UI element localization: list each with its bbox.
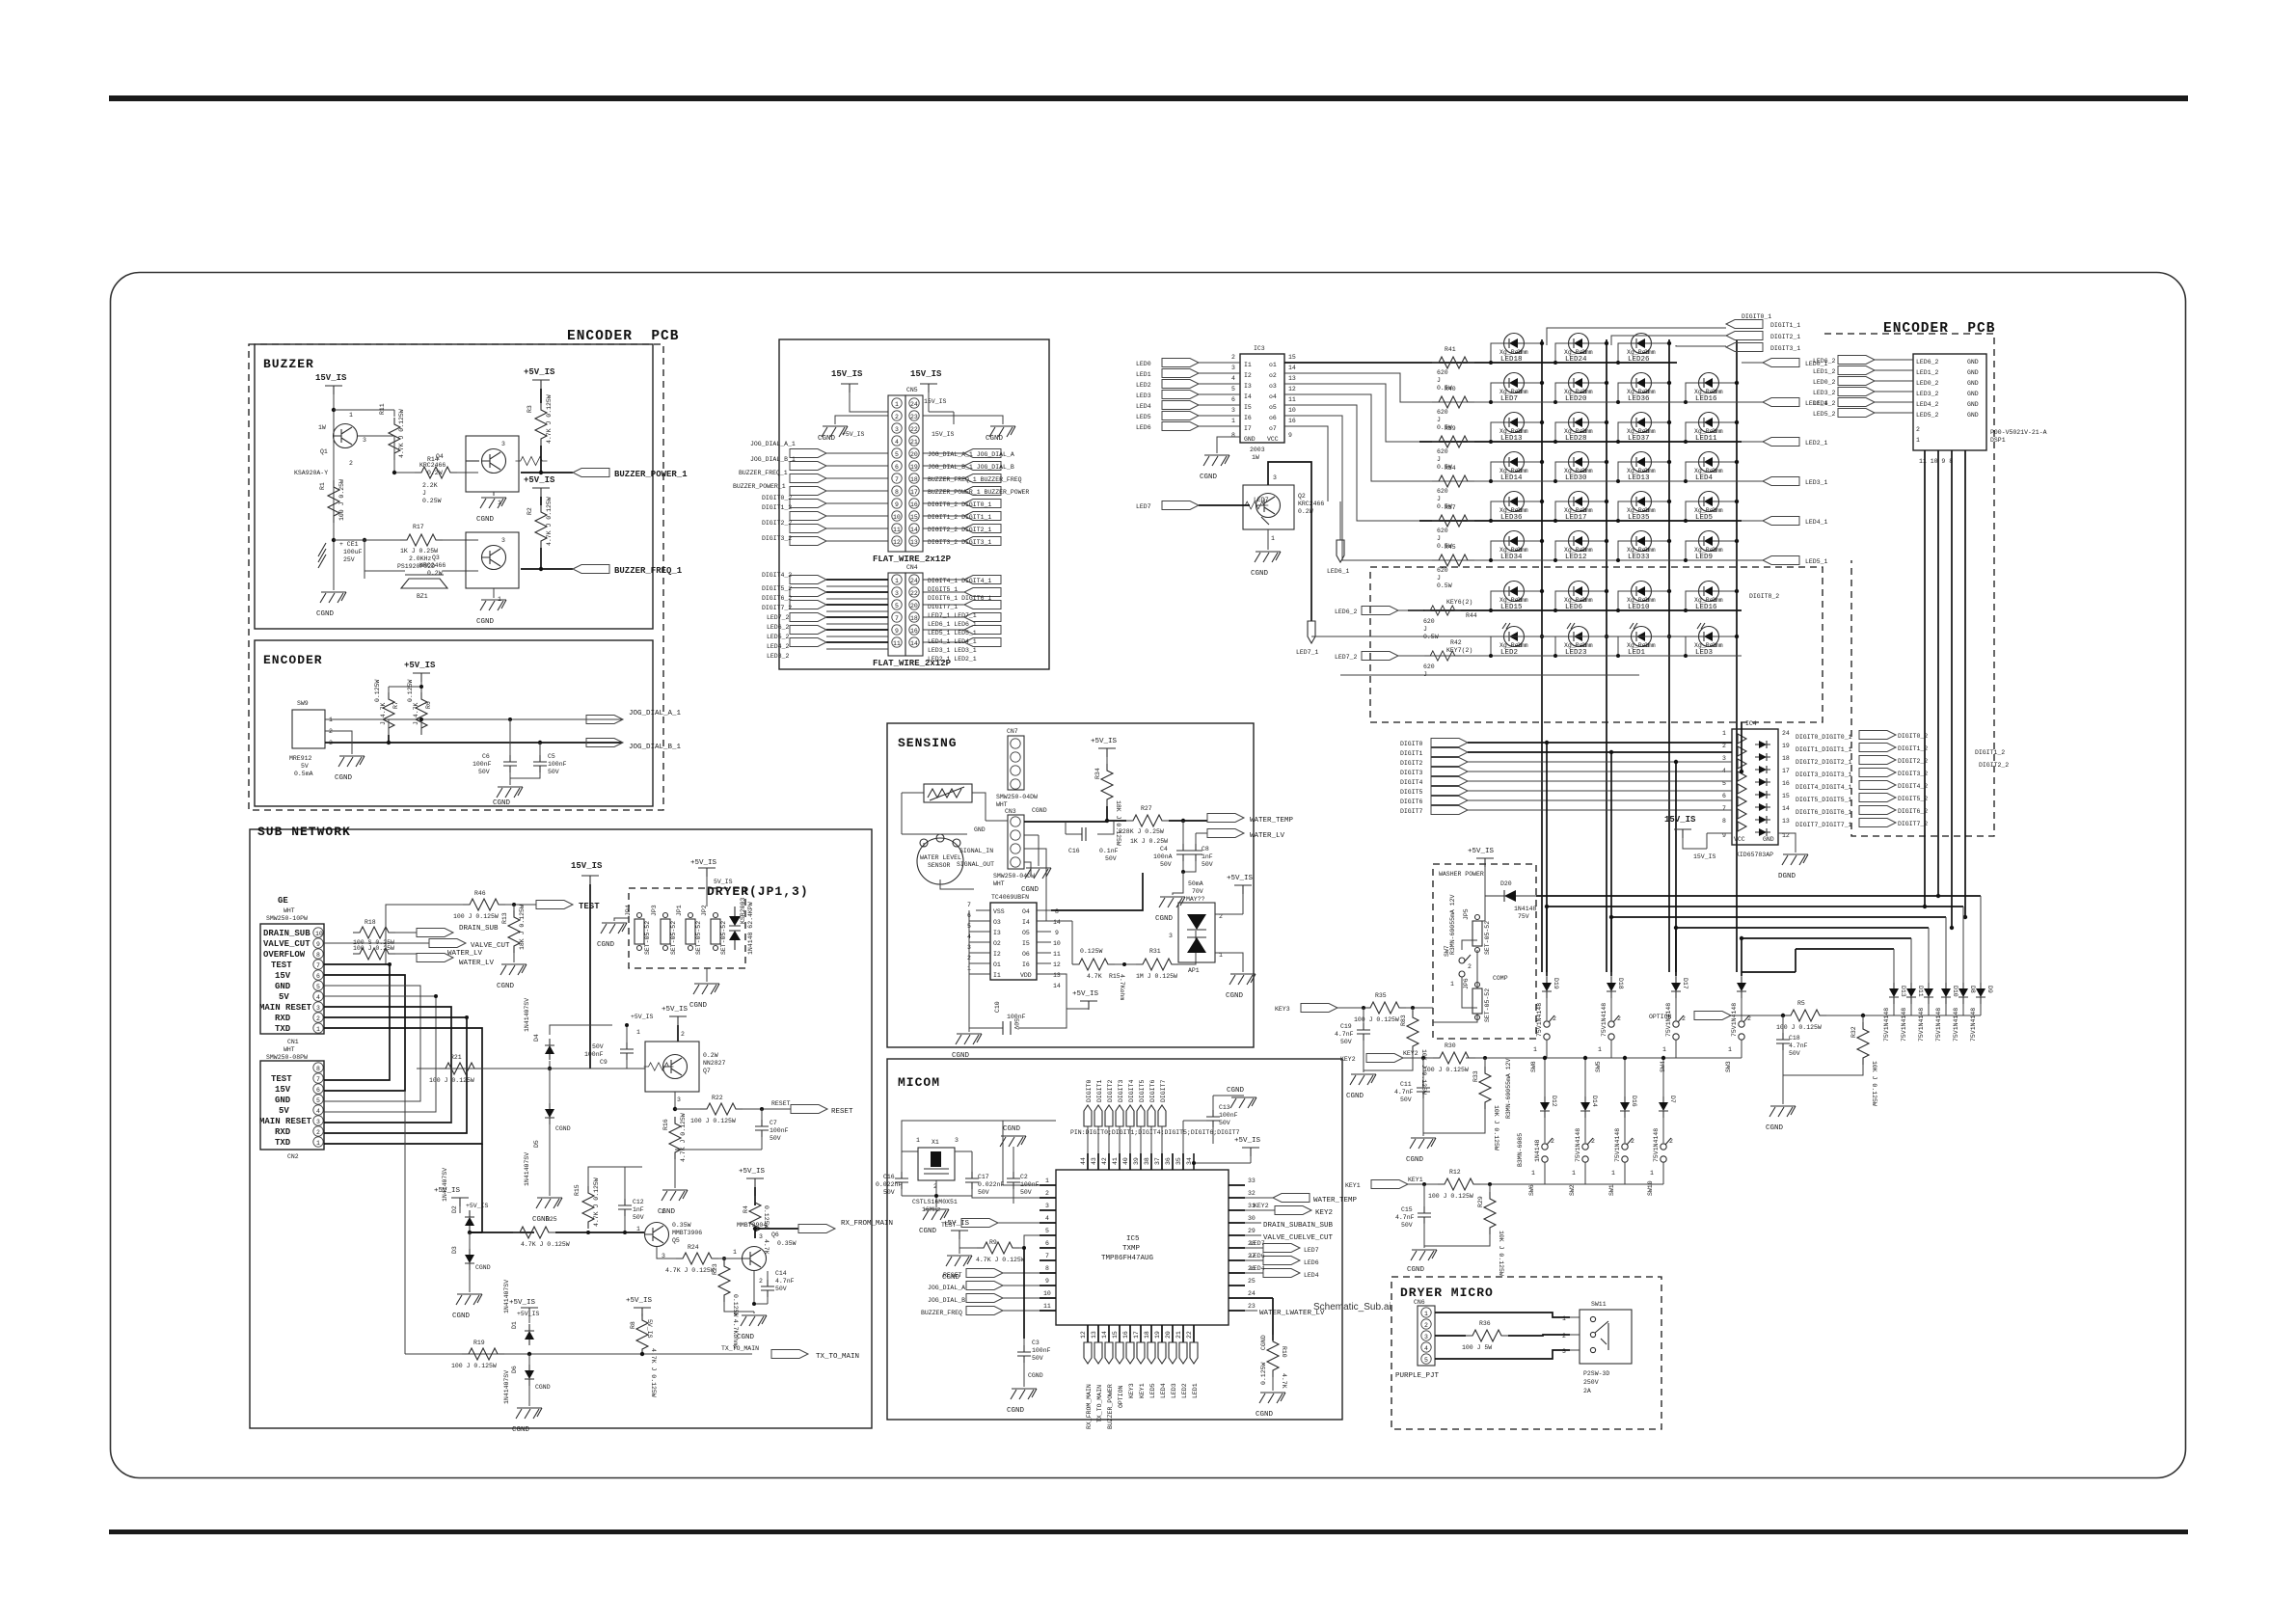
svg-text:PURPLE_PJT: PURPLE_PJT [1395,1372,1440,1380]
svg-text:R45: R45 [1445,544,1456,551]
svg-text:0.2W: 0.2W [427,470,443,476]
svg-text:CGND: CGND [1260,1335,1267,1350]
svg-text:JOG_DIAL_A_1 JOG_DIAL_A: JOG_DIAL_A_1 JOG_DIAL_A [928,451,1014,458]
svg-text:DIGIT0_DIGIT0_1: DIGIT0_DIGIT0_1 [1796,734,1852,741]
svg-text:D4: D4 [533,1034,540,1042]
svg-text:DIGIT1_2: DIGIT1_2 [762,504,792,511]
svg-text:2: 2 [1916,426,1920,433]
svg-text:1N41407SV: 1N41407SV [503,1280,510,1313]
svg-text:MMBT3904: MMBT3904 [737,1222,767,1229]
net flag TX_TO_MAIN [721,1345,859,1361]
svg-text:6: 6 [316,1087,320,1094]
svg-text:1: 1 [733,1249,737,1256]
svg-text:18: 18 [1782,755,1790,762]
ground CGND under R13 [497,953,527,990]
ground DGND (IC4) [1778,833,1808,880]
svg-text:11: 11 [1288,396,1296,403]
svg-text:5V: 5V [301,763,309,770]
jumper JP4 [625,905,651,955]
svg-text:VALVE_CUT: VALVE_CUT [471,942,510,950]
power +5V_IS (IC5) [1192,1137,1261,1170]
svg-text:1: 1 [316,1140,320,1147]
svg-text:LED1: LED1 [1628,649,1646,657]
svg-text:CGND: CGND [597,941,615,949]
svg-text:DIGIT3_2: DIGIT3_2 [762,535,792,542]
svg-text:SW3: SW3 [1725,1061,1732,1072]
svg-text:15V_IS: 15V_IS [831,369,863,379]
svg-text:R16: R16 [662,1119,669,1130]
svg-text:3mm: 3mm [1712,389,1723,395]
svg-text:GND: GND [1763,836,1774,843]
svg-text:3mm: 3mm [1581,507,1593,514]
svg-text:Q5: Q5 [672,1237,680,1244]
svg-text:LED5_2: LED5_2 [767,634,790,640]
svg-text:4.7K J 0.125W: 4.7K J 0.125W [976,1257,1025,1263]
svg-text:1K J 0.25W: 1K J 0.25W [1130,838,1168,845]
svg-text:R18: R18 [365,919,376,926]
svg-text:R3: R3 [527,405,533,413]
svg-text:C2: C2 [1020,1174,1028,1180]
svg-text:I4: I4 [1022,919,1030,926]
resistor R17 [397,524,443,570]
svg-text:21: 21 [1175,1331,1182,1339]
svg-text:Q3: Q3 [432,555,440,561]
jumper JP3 [651,905,677,955]
svg-text:C5: C5 [548,753,555,760]
svg-text:8: 8 [316,952,320,959]
power +5V_IS (IC1) [1051,974,1099,1010]
svg-text:4.7K: 4.7K [763,1239,770,1255]
wire pin8 vertical [1023,1248,1025,1339]
svg-text:JP6: JP6 [1463,978,1470,989]
svg-text:R36: R36 [1479,1320,1491,1327]
svg-text:3mm: 3mm [1517,642,1528,649]
washer power dashed box [1433,864,1536,1039]
svg-text:7: 7 [895,615,899,622]
net flag LED6_2 / resistor R44 [1335,599,1477,640]
svg-text:LED16: LED16 [1695,604,1717,611]
svg-text:CGND: CGND [535,1384,551,1391]
svg-text:+5V_IS: +5V_IS [1091,738,1118,745]
svg-text:1: 1 [1728,1046,1732,1053]
svg-text:o4: o4 [1269,393,1277,400]
svg-text:P00-V5021V-21-A: P00-V5021V-21-A [1990,429,2047,436]
svg-text:D2: D2 [451,1205,458,1213]
svg-text:CGND: CGND [475,1264,491,1271]
power +5V_IS (dryer) [690,859,733,907]
svg-text:LED5_1 LED5_1: LED5_1 LED5_1 [928,630,977,636]
svg-text:18K J 0.125W: 18K J 0.125W [519,905,526,950]
net flag LED3_1 [1742,477,1828,487]
svg-text:JOG_DIAL_B_1 JOG_DIAL_B: JOG_DIAL_B_1 JOG_DIAL_B [928,464,1014,471]
svg-text:1: 1 [1572,1170,1576,1177]
LED LED12 [1555,531,1607,562]
svg-text:R44: R44 [1466,612,1477,619]
svg-text:R34: R34 [1445,465,1456,472]
svg-text:+5V_IS: +5V_IS [1227,875,1254,882]
resistor R18 [353,919,395,946]
ground CGND (D6) [512,1386,542,1434]
svg-text:C19: C19 [1340,1023,1352,1030]
svg-text:0.125W: 0.125W [763,1205,770,1229]
svg-text:5: 5 [895,603,899,609]
capacitor C12 [618,1167,644,1234]
svg-text:0.5mA: 0.5mA [294,771,313,777]
capacitor C19 [1335,1006,1370,1070]
svg-text:6: 6 [895,464,899,471]
svg-text:DIGIT5: DIGIT5 [1139,1079,1146,1102]
svg-text:LED6_2: LED6_2 [1813,358,1836,365]
svg-text:4.7K J 0.125W: 4.7K J 0.125W [593,1177,600,1227]
svg-text:SW1: SW1 [1608,1184,1615,1196]
svg-text:100 J 0.125W: 100 J 0.125W [1423,1067,1469,1073]
svg-text:3: 3 [1231,365,1235,371]
ground CGND under Q4 [476,492,506,524]
svg-text:9: 9 [316,941,320,948]
svg-text:2: 2 [1682,1015,1686,1022]
resistor R39 [1432,425,1474,471]
svg-text:IC5: IC5 [1126,1235,1140,1243]
capacitor C2 [1007,1147,1040,1204]
KEY1 row [1345,1177,1663,1189]
svg-text:RESET: RESET [771,1100,791,1107]
svg-text:TXD: TXD [275,1024,291,1034]
svg-text:50V: 50V [548,769,559,775]
svg-text:C12: C12 [633,1199,644,1205]
svg-text:2: 2 [316,1129,320,1136]
svg-text:5: 5 [1231,386,1235,392]
svg-text:I3: I3 [1244,383,1252,390]
svg-text:J: J [422,490,426,497]
net flag LED5_1 [1742,556,1828,566]
svg-text:D17: D17 [1682,978,1688,989]
svg-text:LED18: LED18 [1500,356,1523,364]
long wires matrix to right [1311,636,1697,675]
svg-text:3: 3 [1231,407,1235,414]
svg-text:VSS: VSS [993,908,1005,915]
net flag VALVE_CUT [324,939,510,955]
svg-text:CGND: CGND [1251,570,1269,578]
svg-text:5: 5 [316,1097,320,1104]
svg-text:+ CE1: + CE1 [339,541,359,548]
ground CGND (AP1) [1215,953,1256,1000]
svg-text:D20: D20 [1500,880,1512,887]
net flag JOG_DIAL_B (micom) [928,1294,1040,1305]
svg-text:KEY2: KEY2 [1254,1203,1269,1209]
resistor R37 [1432,504,1474,550]
connector CN7 [996,728,1038,808]
micom IC5 [1056,1170,1229,1325]
svg-text:100 J 0.125W: 100 J 0.125W [1428,1193,1473,1200]
svg-text:JOG_DIAL_B: JOG_DIAL_B [928,1297,965,1304]
svg-text:4.7K J 0.125W: 4.7K J 0.125W [546,394,553,444]
svg-text:I2: I2 [993,951,1001,958]
resistor R23 [712,1259,739,1349]
ground CGND (SW9) [335,756,365,782]
jumper JP1 [676,905,702,955]
CN5 right net labels [928,449,1029,547]
svg-text:3: 3 [1273,474,1277,481]
svg-text:2A: 2A [1583,1388,1591,1394]
CN5 pins [873,398,952,564]
svg-text:18: 18 [910,615,918,622]
svg-text:50V: 50V [478,769,490,775]
svg-text:LED4: LED4 [1304,1272,1319,1279]
svg-text:DIGIT1_2: DIGIT1_2 [1975,749,2005,756]
svg-text:3mm: 3mm [1644,597,1656,604]
svg-text:R27: R27 [1141,805,1152,812]
svg-text:C16: C16 [883,1174,895,1180]
svg-text:4.7Kohm: 4.7Kohm [1119,974,1125,1000]
power +5V_IS (AP1) [1215,875,1254,914]
svg-text:I1: I1 [993,972,1001,979]
svg-text:75V: 75V [1518,913,1529,920]
capacitor C7 [675,1109,789,1150]
svg-text:5: 5 [316,984,320,990]
svg-text:LED5_1: LED5_1 [1805,558,1828,565]
svg-text:CN2: CN2 [287,1153,299,1160]
svg-text:I5: I5 [1022,940,1030,947]
wire to R11 [334,410,394,417]
svg-text:620: 620 [1437,567,1448,574]
svg-text:Q1: Q1 [320,448,328,455]
svg-text:CGND: CGND [818,435,836,443]
LED LED16 [1686,373,1737,404]
svg-text:50V: 50V [1340,1039,1352,1045]
svg-text:41: 41 [1112,1157,1119,1165]
svg-text:2: 2 [1669,1138,1673,1145]
svg-text:X1: X1 [932,1139,939,1146]
svg-text:8: 8 [1722,818,1726,825]
wire TXD down [404,1091,406,1354]
wire lower rail [334,539,400,541]
wire RX row [470,1232,644,1233]
diode D4 [524,998,612,1069]
svg-text:5V_IS: 5V_IS [714,879,733,885]
svg-text:10: 10 [893,514,901,521]
svg-text:3mm: 3mm [1712,468,1723,474]
svg-text:DRAIN_SUBAIN_SUB: DRAIN_SUBAIN_SUB [1263,1222,1334,1230]
svg-text:DRYER(JP1,3): DRYER(JP1,3) [707,884,809,899]
LED LED16 [1686,582,1737,612]
wire R3 to flag [521,446,573,473]
svg-text:TX_TO_MAIN: TX_TO_MAIN [816,1353,859,1361]
svg-text:CGND: CGND [452,1313,471,1320]
svg-text:CN4: CN4 [906,564,918,571]
svg-text:4.7K J 0.125W: 4.7K J 0.125W [650,1348,657,1397]
IC5 top pins [1080,1153,1194,1170]
wire Q2 collector [1268,462,1311,621]
svg-text:I7: I7 [1244,425,1252,432]
resistor R31 [1115,931,1196,980]
svg-text:LED0: LED0 [1136,361,1151,367]
ground CGND (IC1) [952,1028,982,1060]
svg-text:10K J 0.125W: 10K J 0.125W [1498,1231,1504,1276]
resistor R45 [1432,544,1474,589]
svg-text:SIGNAL_IN: SIGNAL_IN [959,848,993,854]
svg-text:DRAIN_SUB: DRAIN_SUB [263,929,311,938]
svg-text:LED3_1 LED3_1: LED3_1 LED3_1 [928,647,977,654]
svg-text:16: 16 [1782,780,1790,787]
svg-text:R25: R25 [546,1216,557,1223]
svg-text:KEY7(2): KEY7(2) [1446,647,1472,654]
svg-text:LED2_1: LED2_1 [1805,440,1828,447]
svg-text:J: J [1423,626,1427,633]
IC4 KID65783AP [1722,720,1790,858]
svg-text:4: 4 [1045,1215,1049,1222]
encoder connector bottom wires [1925,450,1965,928]
svg-text:1N4148: 1N4148 [1514,906,1537,912]
svg-text:14: 14 [910,527,918,533]
svg-text:JOG_DIAL_B_1: JOG_DIAL_B_1 [750,456,796,463]
svg-text:VALVE_CUT: VALVE_CUT [263,939,311,949]
svg-text:KEY2: KEY2 [1315,1209,1333,1217]
svg-text:R30: R30 [1445,1042,1456,1049]
svg-text:FLAT_WIRE_2x12P: FLAT_WIRE_2x12P [873,555,952,564]
encoder-pcb outer dashed box [249,344,663,810]
svg-text:D3: D3 [451,1246,458,1254]
svg-text:39: 39 [1133,1157,1140,1165]
ground CGND (CN3) [1021,807,1051,894]
ground CGND (KEY1) [1407,1223,1437,1274]
svg-text:7: 7 [895,476,899,483]
svg-text:75V1N4148: 75V1N4148 [1614,1128,1621,1162]
svg-text:2: 2 [895,414,899,420]
svg-text:DIGIT6: DIGIT6 [1400,798,1423,805]
svg-text:LED6: LED6 [1565,604,1583,611]
switch SW7 [1444,945,1472,988]
svg-text:CGND: CGND [658,1208,676,1216]
svg-text:DIGIT2_2 DIGIT2_1: DIGIT2_2 DIGIT2_1 [928,527,991,533]
svg-text:Q6: Q6 [771,1232,779,1238]
svg-text:2: 2 [1617,1015,1621,1022]
svg-text:WATER_LV: WATER_LV [1250,832,1285,840]
svg-text:DIGIT7_2: DIGIT7_2 [1898,821,1928,827]
net flag BUZZER_FREQ (micom) [921,1307,1040,1317]
svg-text:B3MN-6085: B3MN-6085 [1517,1133,1524,1167]
svg-text:o3: o3 [1269,383,1277,390]
svg-text:GND: GND [1967,359,1979,365]
svg-text:DIGIT1_2: DIGIT1_2 [1898,745,1928,752]
net flag RESET (micom) [943,1269,1040,1280]
CN5 left net flags [733,441,888,546]
svg-text:2: 2 [1591,1138,1595,1145]
svg-text:11: 11 [1053,951,1061,958]
svg-text:VDD: VDD [1020,972,1032,979]
svg-text:0.5W: 0.5W [1437,582,1452,589]
KEY3 row [1275,1004,1364,1014]
ground CGND (CN5 left) [818,416,888,443]
resistor R36 [1435,1320,1508,1351]
svg-text:DIGIT8_2: DIGIT8_2 [1749,593,1779,600]
transistor Q3 (digital) [419,532,519,603]
svg-text:C3: C3 [1032,1340,1040,1346]
svg-text:BUZZER_POWER: BUZZER_POWER [1107,1384,1114,1429]
svg-text:IC3: IC3 [1254,345,1265,352]
svg-text:SW6: SW6 [1528,1184,1535,1196]
svg-text:RESET: RESET [831,1108,853,1116]
svg-text:LED17: LED17 [1565,514,1587,522]
svg-text:WATER_TEMP: WATER_TEMP [1250,817,1294,825]
svg-text:R42: R42 [1450,639,1462,646]
svg-text:2: 2 [316,1015,320,1022]
svg-text:R32: R32 [1850,1026,1857,1038]
svg-text:CGND: CGND [1155,915,1174,923]
svg-text:CN1: CN1 [287,1039,299,1045]
svg-text:SET-05-52: SET-05-52 [644,921,651,955]
svg-text:LED23: LED23 [1565,649,1587,657]
net flag WATER_TEMP [1169,814,1294,826]
svg-text:D9: D9 [1986,986,1993,993]
svg-text:SW2: SW2 [1569,1184,1576,1196]
svg-text:75V1N4148: 75V1N4148 [1935,1008,1942,1042]
svg-text:JP5: JP5 [1463,908,1470,920]
svg-text:O4: O4 [1022,908,1030,915]
svg-text:GND: GND [1967,369,1979,376]
svg-text:25V: 25V [343,556,355,563]
svg-text:4: 4 [1231,375,1235,382]
svg-text:50V: 50V [1202,861,1213,868]
svg-text:D19: D19 [1553,978,1559,989]
svg-text:LED4_2: LED4_2 [1813,400,1836,407]
svg-text:J: J [1437,496,1441,502]
svg-text:4: 4 [316,1108,320,1115]
svg-text:LED2_1 LED2_1: LED2_1 LED2_1 [928,656,977,663]
svg-text:2: 2 [1231,354,1235,361]
svg-text:C16: C16 [1068,848,1080,854]
svg-text:32: 32 [1248,1190,1256,1197]
svg-text:BUZZER_POWER_1 BUZZER_POWER: BUZZER_POWER_1 BUZZER_POWER [928,489,1029,496]
svg-text:10K J 0.125W: 10K J 0.125W [1871,1061,1877,1106]
resistor R21 [429,1054,481,1084]
svg-text:LED16: LED16 [1695,395,1717,403]
svg-text:AP1: AP1 [1188,967,1200,974]
encoder switch SW9 [289,700,333,777]
resistor R2 [527,497,553,548]
svg-text:16: 16 [910,501,918,508]
connector CN1 [259,924,324,1045]
svg-text:0.35W: 0.35W [777,1240,797,1247]
thermistor [902,784,986,821]
svg-text:MICOM: MICOM [898,1075,940,1090]
svg-text:3: 3 [316,1119,320,1125]
resistor R5 [1776,1000,1826,1031]
svg-text:16: 16 [1122,1331,1129,1339]
sheet border [111,273,2186,1478]
svg-text:R19: R19 [473,1340,485,1346]
svg-text:CN5: CN5 [906,387,918,393]
power 15V_IS right [910,369,954,424]
resistor R29 [1424,1182,1504,1276]
svg-text:R35: R35 [1375,992,1387,999]
svg-text:DIGIT7_1: DIGIT7_1 [928,604,958,610]
svg-text:SW11: SW11 [1591,1301,1607,1308]
svg-text:43: 43 [1091,1157,1097,1165]
node [392,471,396,474]
svg-text:DIGIT5_DIGIT5_1: DIGIT5_DIGIT5_1 [1796,797,1852,803]
wire MAIN RESET right [417,1069,451,1123]
svg-text:DIGIT4_2: DIGIT4_2 [1898,783,1928,790]
svg-text:15V_IS: 15V_IS [924,398,947,405]
capacitor C14 [761,1270,795,1304]
svg-text:10: 10 [1288,407,1296,414]
svg-text:15: 15 [910,514,918,521]
svg-text:50V: 50V [592,1043,604,1050]
jumper JP2 [701,905,727,955]
svg-text:BZ1: BZ1 [417,593,428,600]
svg-text:KEY6(2): KEY6(2) [1446,599,1472,606]
svg-text:10: 10 [315,931,323,937]
